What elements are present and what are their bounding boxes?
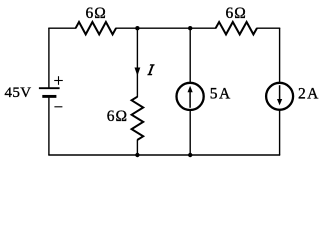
svg-text:45V: 45V	[5, 85, 32, 101]
svg-text:6Ω: 6Ω	[86, 5, 107, 22]
svg-text:5A: 5A	[210, 86, 232, 103]
svg-text:6Ω: 6Ω	[107, 108, 128, 125]
svg-text:6Ω: 6Ω	[226, 5, 247, 22]
svg-text:2A: 2A	[298, 86, 320, 103]
